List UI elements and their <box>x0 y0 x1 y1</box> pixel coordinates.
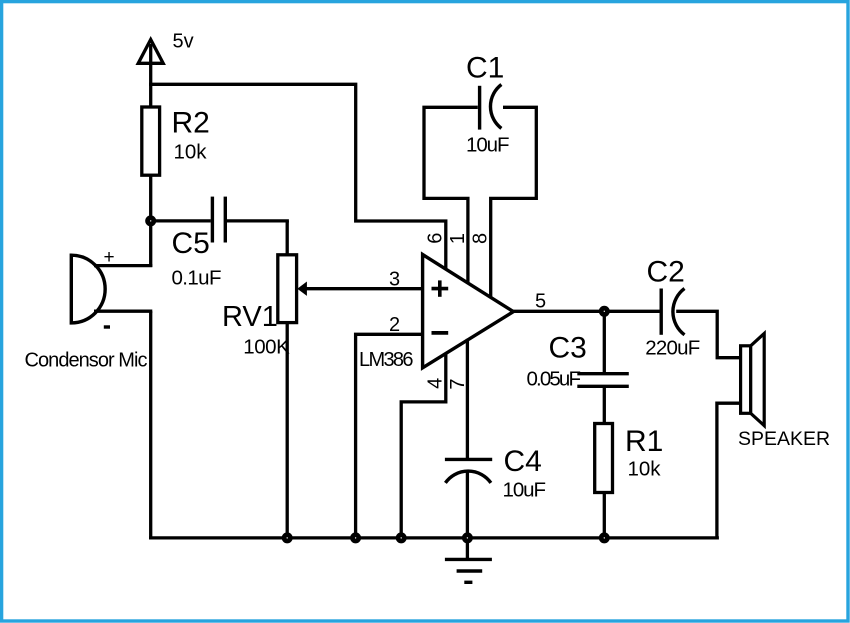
svg-text:LM386: LM386 <box>359 349 414 371</box>
svg-text:8: 8 <box>470 233 492 244</box>
svg-text:10k: 10k <box>174 141 208 164</box>
svg-text:10uF: 10uF <box>466 134 510 157</box>
svg-text:0.1uF: 0.1uF <box>172 267 222 290</box>
svg-text:C2: C2 <box>647 256 685 289</box>
svg-text:10k: 10k <box>628 458 662 481</box>
svg-text:1: 1 <box>447 233 469 244</box>
svg-text:10uF: 10uF <box>503 479 547 502</box>
svg-text:6: 6 <box>424 233 446 244</box>
svg-text:100K: 100K <box>243 336 290 359</box>
svg-text:220uF: 220uF <box>645 337 700 360</box>
svg-text:7: 7 <box>447 378 469 389</box>
svg-text:+: + <box>104 247 115 268</box>
svg-text:0.05uF: 0.05uF <box>527 367 582 390</box>
svg-text:3: 3 <box>389 269 400 291</box>
svg-text:2: 2 <box>389 314 400 336</box>
svg-text:SPEAKER: SPEAKER <box>738 428 830 450</box>
svg-text:C1: C1 <box>466 52 504 85</box>
svg-text:Condensor Mic: Condensor Mic <box>25 349 148 371</box>
svg-text:4: 4 <box>424 378 446 389</box>
svg-text:R1: R1 <box>625 425 663 458</box>
svg-text:5: 5 <box>535 291 546 313</box>
svg-text:R2: R2 <box>172 107 210 140</box>
svg-text:C3: C3 <box>549 332 587 365</box>
svg-text:C5: C5 <box>172 227 210 260</box>
svg-text:5v: 5v <box>173 31 194 53</box>
svg-text:RV1: RV1 <box>222 301 278 333</box>
svg-text:C4: C4 <box>504 445 542 478</box>
